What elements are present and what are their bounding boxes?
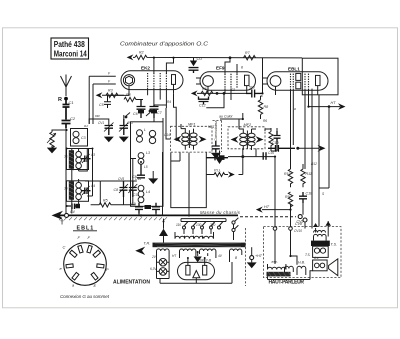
T.R. secondary winding (HT): [180, 249, 196, 258]
junction node (det out): [241, 155, 244, 158]
ground (antenna pot): [47, 146, 57, 153]
svg-text:P.U.: P.U.: [214, 169, 221, 173]
svg-text:130: 130: [196, 223, 202, 227]
svg-text:C16: C16: [268, 151, 274, 155]
small arrows above T.S.: [325, 221, 331, 226]
svg-text:T.S.: T.S.: [305, 253, 311, 257]
MF2 tuning arrow left: [231, 136, 239, 143]
wire AF takeoff: [228, 149, 275, 166]
resistor R7 on AVC line (right): [244, 51, 256, 60]
lamp wires: [157, 256, 170, 279]
wire EF9 plate circuit: [206, 58, 262, 108]
svg-text:R2: R2: [139, 51, 144, 55]
svg-text:T2: T2: [64, 187, 68, 191]
field coil core (hatched bar): [267, 272, 292, 277]
svg-text:220: 220: [209, 223, 216, 227]
chassis terminal arrow T: [52, 211, 64, 227]
screen dropper resistor R9: [284, 169, 293, 187]
socket pin labels: [60, 235, 110, 288]
socket circle EBL1 base: [64, 243, 107, 286]
svg-text:EK2: EK2: [141, 65, 150, 70]
padding capacitor C8: [132, 164, 145, 179]
dial lamp 2: [159, 268, 167, 276]
svg-text:Marconi 14: Marconi 14: [54, 50, 87, 59]
svg-text:6,3V: 6,3V: [150, 267, 157, 271]
svg-text:R: R: [58, 97, 62, 103]
trimmer capacitor CV4 on T2: [81, 186, 90, 195]
mains terminals: [232, 218, 239, 240]
rectifier anode plates: [186, 265, 207, 275]
coupling capacitor C13 (500): [246, 86, 263, 98]
chassis bus (masse): [57, 215, 238, 220]
svg-text:R9: R9: [285, 195, 290, 199]
detector wire with arrow: [191, 90, 246, 96]
tube V3 EBL1 envelope: [267, 72, 328, 90]
antenna input transformer T1 (hatched primary + secondary loops): [69, 149, 82, 172]
svg-text:d.v.: d.v.: [314, 256, 319, 260]
svg-text:C4: C4: [91, 184, 95, 188]
svg-text:R8: R8: [264, 105, 269, 109]
IF transformer MF2 (dashed box): [228, 123, 265, 149]
resistor R4: [124, 93, 143, 102]
tube V3 grids (dashed): [291, 74, 309, 89]
svg-text:T1: T1: [64, 155, 68, 159]
field coil excitation: [268, 260, 286, 270]
wire top AVC line with left arrow: [127, 54, 135, 60]
svg-text:C3: C3: [91, 153, 95, 157]
oscillator padder transformer T2 (hatched + loops): [69, 179, 82, 202]
anode load resistor R8 (vertical): [258, 96, 268, 119]
svg-text:T.S.: T.S.: [331, 242, 338, 246]
MF2 tuning arrow right: [256, 136, 264, 143]
resistor R2 on AVC line: [135, 55, 302, 59]
socket label EBL1: [73, 225, 97, 231]
speaker cone: [329, 259, 338, 276]
ground CV2: [119, 137, 129, 143]
wire oscillator to bus verticals: [139, 118, 163, 215]
detector diode capacitor C14: [206, 153, 228, 160]
svg-text:MF1: MF1: [208, 125, 215, 129]
output transformer T.S. primary loops: [314, 231, 327, 241]
svg-text:L3: L3: [146, 151, 150, 155]
misc small value labels: [64, 65, 325, 271]
svg-text:a: a: [294, 107, 296, 111]
MF1 secondary loop column: [190, 133, 197, 145]
svg-text:Connexion G au sommet: Connexion G au sommet: [60, 294, 110, 299]
svg-text:HAUT-PARLEUR: HAUT-PARLEUR: [269, 279, 305, 285]
HT feed arrow (mid): [318, 145, 326, 152]
svg-text:C8: C8: [114, 188, 119, 192]
trimmer cap CV1: [104, 123, 114, 136]
HT line with arrow (upper): [309, 101, 346, 110]
oscillator coil L3 loops: [138, 151, 150, 164]
tube V2 electrode leads: [196, 58, 247, 100]
svg-text:C5: C5: [99, 103, 104, 107]
rectifier tube 1883 envelope: [178, 262, 215, 279]
node CV10: [289, 227, 293, 231]
band switch contacts: [125, 110, 151, 118]
wire antenna down-lead to chassis bus: [65, 128, 67, 214]
long supply verticals: [164, 219, 227, 243]
svg-text:R5: R5: [103, 199, 108, 203]
trimmer cap CV2: [119, 119, 129, 135]
ground (det cap): [211, 153, 221, 159]
potentiometer R1 (zigzag with arrow): [47, 132, 56, 150]
svg-text:500: 500: [249, 86, 255, 90]
transformer T.R. primary winding: [175, 232, 214, 239]
capacitor C15: [263, 152, 266, 160]
wire grid-leak loop: [171, 153, 207, 208]
svg-text:CV5: CV5: [118, 177, 124, 181]
wire diode load: [265, 128, 277, 151]
MF2 frame wires: [239, 119, 256, 150]
input transformer frame 2: [67, 181, 89, 202]
output section shield box: [302, 58, 338, 95]
svg-text:osc: osc: [95, 114, 100, 118]
svg-text:R4: R4: [167, 100, 171, 104]
diode load capacitor C19: [274, 129, 281, 146]
svg-text:L4: L4: [146, 190, 150, 194]
wire branch to volume potentiometer: [52, 130, 66, 132]
svg-text:C10: C10: [272, 141, 279, 145]
svg-text:HT: HT: [264, 205, 270, 209]
svg-text:L: L: [144, 128, 146, 132]
resistor R12 (lower): [285, 192, 293, 210]
screen capacitor C16: [268, 141, 295, 152]
trimmer capacitor CV3 on T1: [81, 154, 90, 163]
capacitor C6: [133, 100, 146, 119]
svg-text:C1: C1: [69, 100, 74, 105]
junction nodes CV8: [295, 215, 307, 226]
junction on screen line: [296, 147, 299, 150]
wire top-cap lead (au culot): [219, 113, 243, 119]
input transformer frame 1: [67, 149, 89, 170]
svg-text:R10: R10: [284, 172, 291, 176]
svg-text:Pathé 438: Pathé 438: [54, 40, 85, 49]
svg-text:T.R.: T.R.: [144, 242, 151, 246]
dial lamp 1: [159, 258, 167, 266]
MF1 frame wires: [176, 124, 193, 150]
title box Pathé 438 / Marconi 14: [51, 38, 89, 59]
svg-text:MF1: MF1: [188, 122, 196, 126]
node on bus: [65, 213, 69, 217]
tube V1 anode plate: [172, 75, 176, 85]
svg-text:R6: R6: [202, 87, 207, 91]
speaker wiring: [268, 221, 329, 280]
svg-text:EBL1: EBL1: [288, 66, 300, 71]
tube V2 EF9 envelope: [200, 72, 256, 90]
output transformer T.S. core: [311, 241, 330, 246]
svg-text:ALIMENTATION: ALIMENTATION: [113, 280, 150, 286]
svg-text:Masse du chassis: Masse du chassis: [200, 210, 241, 215]
wire V1 anode to MF1 primary: [174, 93, 177, 130]
capacitor C10 (osc right): [152, 203, 160, 214]
trimmer caps CV5/CV6 pair: [114, 181, 138, 197]
tube V1 grids (dashed): [148, 73, 167, 88]
hum-bucking coil: [285, 261, 306, 273]
svg-text:L5: L5: [144, 165, 148, 169]
svg-text:CV2: CV2: [127, 121, 133, 125]
coupling frame wires left block: [67, 149, 101, 214]
resistor R3: [106, 89, 118, 98]
tube V3 diode plates: [296, 73, 301, 88]
socket pins (slots): [66, 245, 104, 280]
capacitor C17: [299, 192, 312, 204]
wire band-switch frame: [100, 159, 137, 205]
tube V3 electrode leads: [263, 78, 319, 227]
AVC return wire with arrow: [96, 92, 124, 98]
tube V1 electrode leads: [129, 58, 174, 108]
pickup P.U. arrow down: [215, 151, 223, 165]
ground CV1: [104, 137, 114, 143]
IF transformer MF1 (dashed box): [171, 122, 213, 152]
svg-text:g: g: [241, 65, 243, 69]
junction dots on bus: [140, 214, 142, 216]
antenna: [61, 75, 72, 97]
svg-text:C6: C6: [133, 112, 138, 116]
wire EBL1 plate down: [319, 107, 329, 227]
svg-text:C3: C3: [81, 136, 86, 140]
svg-text:CV6: CV6: [135, 177, 141, 181]
tube V2 anode plate: [245, 75, 250, 85]
wires from tube V1 cathode/grid to band switch: [89, 76, 116, 124]
svg-text:C18: C18: [306, 192, 313, 196]
svg-text:C15: C15: [133, 193, 139, 197]
rectifier wiring: [160, 258, 232, 283]
svg-text:Commutateur: Commutateur: [214, 120, 218, 141]
svg-text:C14: C14: [164, 133, 170, 137]
capacitor C5: [99, 95, 111, 108]
grid capacitor C12 (loop below): [199, 97, 209, 108]
mains selector switch: [181, 219, 226, 229]
HT output node: [250, 247, 263, 259]
MF1 primary loop column: [182, 133, 189, 145]
tube V1 EK2 envelope: [121, 71, 183, 90]
svg-text:1883 B: 1883 B: [199, 258, 212, 262]
small arrow (T.S. feed): [313, 223, 318, 227]
svg-text:C2: C2: [231, 88, 235, 92]
rectifier cathode arrow down: [194, 252, 202, 263]
node CV9: [273, 227, 277, 231]
svg-text:110: 110: [176, 223, 181, 227]
oscillator coil L4 loops: [138, 185, 150, 202]
svg-text:CU: CU: [197, 57, 203, 61]
svg-text:CV1: CV1: [98, 121, 104, 125]
MF1 tuning arrow right: [199, 136, 207, 143]
T.S. secondary loops: [313, 246, 329, 257]
ground oscillator: [148, 171, 158, 184]
oscillator coil box: [131, 122, 164, 207]
svg-text:R6: R6: [263, 119, 267, 123]
wire EBL1 cathode bottom: [291, 203, 306, 227]
mains input arrow: [135, 247, 145, 255]
dashed divider alim box: [245, 228, 247, 286]
svg-text:au Culot: au Culot: [219, 115, 233, 119]
wire MF1 to detector (long vertical): [154, 105, 189, 215]
svg-text:HT: HT: [331, 101, 337, 105]
commutateur dashed border: [213, 121, 222, 153]
svg-text:+HT: +HT: [255, 254, 263, 258]
resistor R5 (to chassis): [91, 199, 136, 208]
svg-text:C: C: [63, 245, 66, 250]
svg-text:C4: C4: [70, 210, 75, 214]
speaker dashed box: [264, 227, 342, 278]
MF2 primary loop column: [240, 133, 247, 145]
svg-text:C12: C12: [199, 104, 206, 108]
wire grid circuit: [89, 95, 129, 125]
svg-text:T: T: [61, 221, 64, 227]
MF1 core line: [188, 130, 190, 148]
svg-text:R3: R3: [108, 89, 113, 93]
decoupling capacitor CU: [189, 57, 203, 73]
T.R. secondary winding (right): [230, 249, 242, 262]
cathode resistor R11: [301, 164, 312, 187]
MF2 core line: [246, 131, 248, 149]
svg-text:R11: R11: [306, 172, 312, 176]
aerial coil L1: [71, 129, 88, 147]
HT rectified arrow up: [159, 229, 168, 243]
tube V3 output plate: [316, 75, 321, 85]
rectifier filament triangle: [193, 271, 200, 278]
MF2 secondary loop column: [248, 133, 255, 145]
node R (aerial terminal): [58, 97, 68, 103]
diode load resistor R13: [269, 129, 273, 148]
svg-text:CV9: CV9: [297, 220, 304, 224]
svg-text:C2: C2: [70, 116, 76, 121]
svg-text:Combinateur d'apposition O.C: Combinateur d'apposition O.C: [120, 42, 209, 48]
svg-text:H.B.: H.B.: [298, 261, 305, 265]
grid resistor R6: [201, 87, 213, 96]
svg-text:EF9: EF9: [216, 66, 225, 71]
junction on AVC line: [229, 56, 232, 59]
junction dots on detector wire: [216, 92, 219, 95]
transformer T.R. core: [153, 243, 246, 248]
voice coil box: [313, 256, 328, 271]
HT return arrow (left): [256, 205, 291, 213]
capacitor C11 to ground (det): [212, 141, 220, 156]
capacitor C4 to chassis: [66, 204, 80, 215]
capacitor C2: [62, 116, 76, 128]
tube V2 grids (dashed): [225, 74, 237, 89]
T.R. secondary winding (heaters): [200, 249, 216, 258]
T.R. secondary winding (filament): [157, 249, 170, 256]
svg-text:a.c: a.c: [84, 124, 89, 128]
capacitor C7: [150, 105, 163, 118]
svg-text:MF2: MF2: [244, 123, 252, 127]
pickup feed resistor and arrow: [206, 169, 235, 178]
volume wire down: [239, 157, 276, 227]
svg-text:C9: C9: [131, 202, 136, 206]
ground arrow below HT node: [247, 262, 257, 268]
MF1 tuning arrow left: [174, 136, 182, 143]
capacitor C1: [63, 100, 74, 120]
capacitor C9 (osc, with blob): [131, 202, 151, 214]
svg-text:R12: R12: [311, 162, 317, 166]
svg-text:CV10: CV10: [294, 229, 302, 233]
